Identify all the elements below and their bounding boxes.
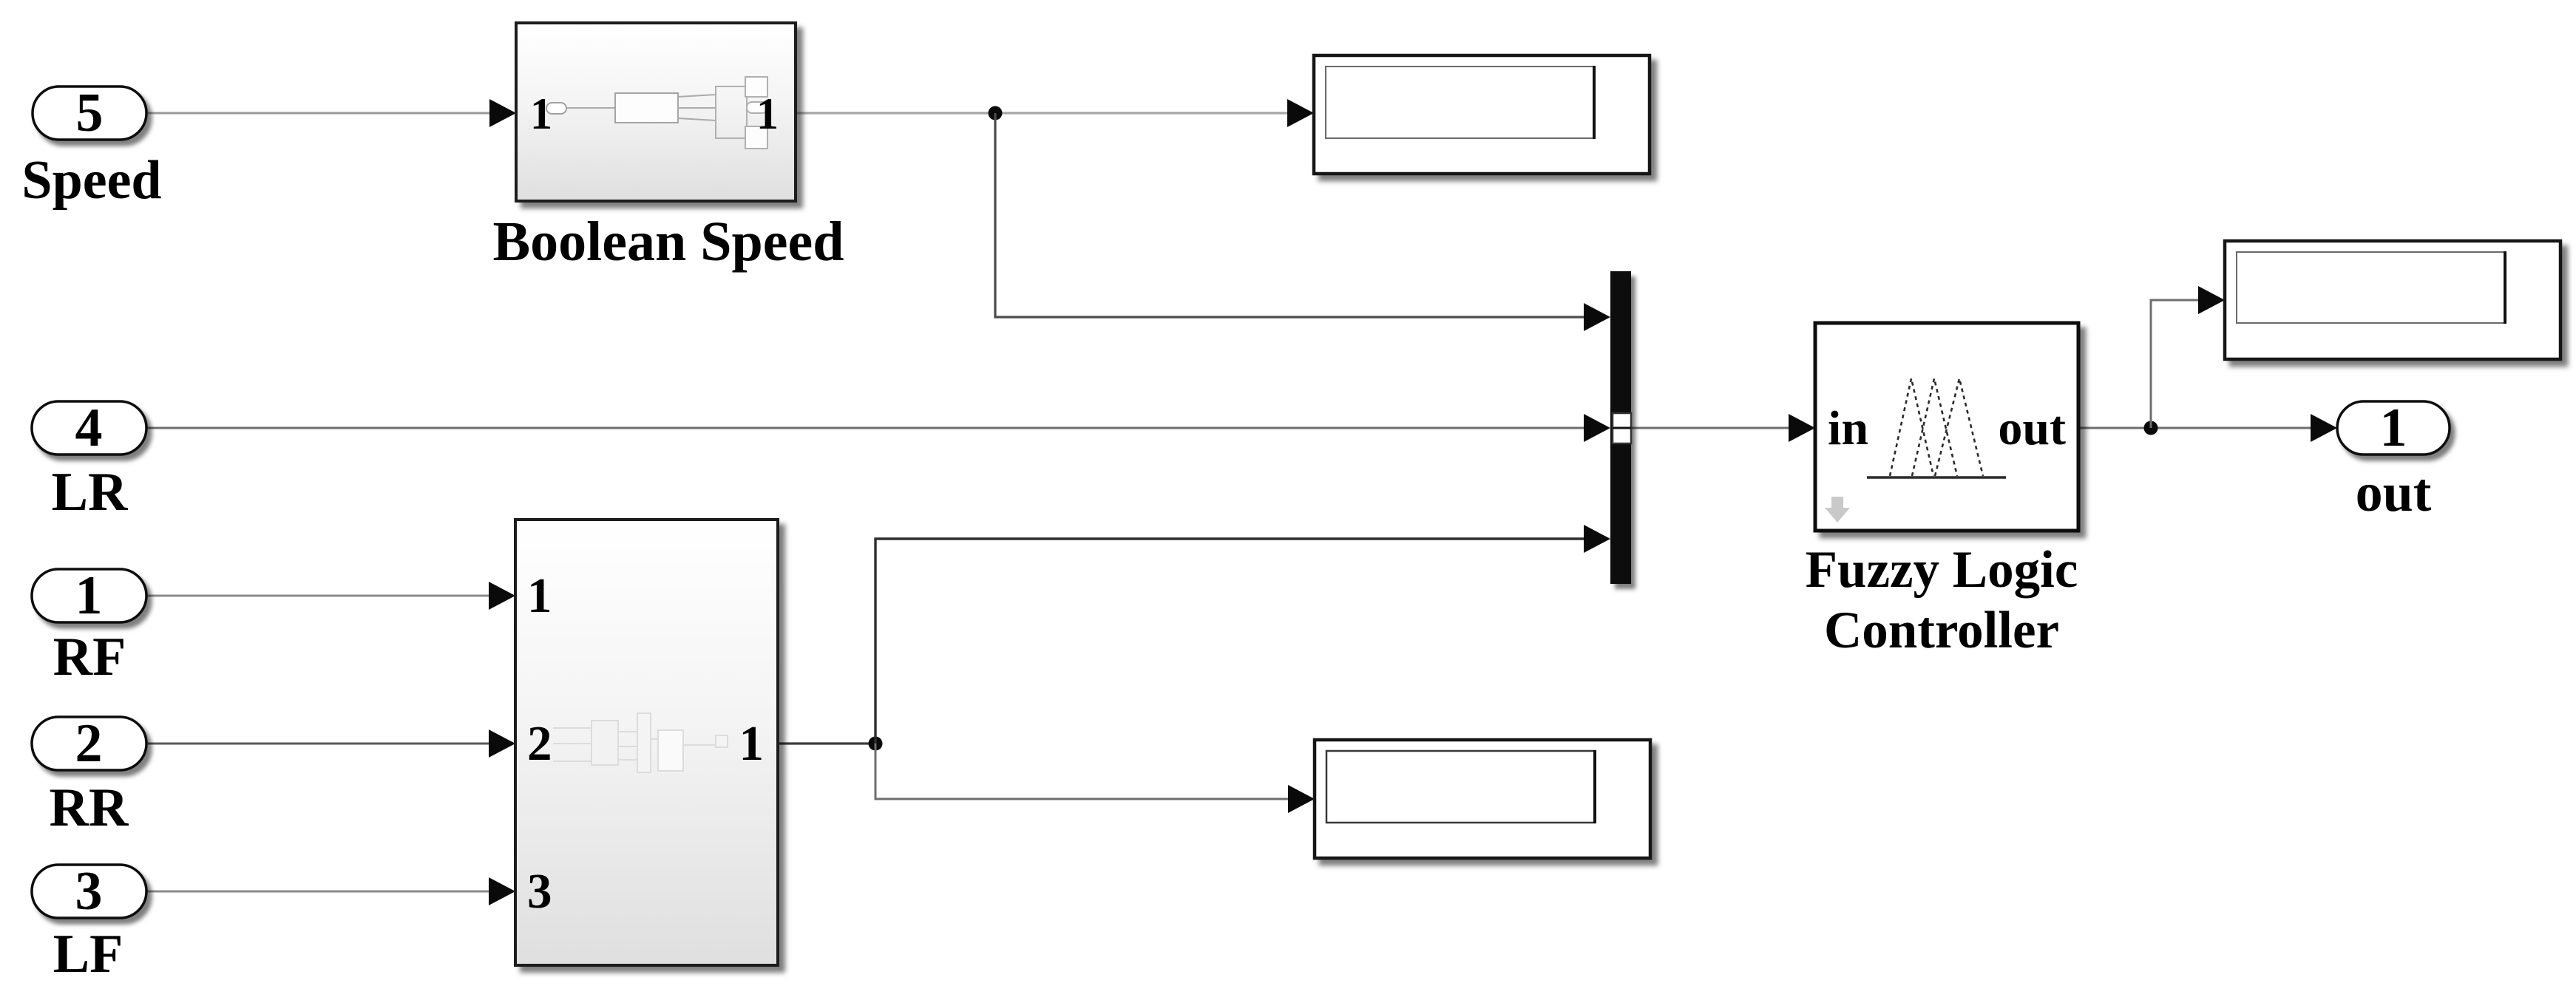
wire RF port 1 to subsystem input 1 [146,595,494,597]
arrow into display 3 [2198,286,2225,314]
subsystem fuzzy preprocessing (3-input) [515,520,778,965]
svg-text:2: 2 [527,716,552,771]
wire LR port 4 to mux input 2 [146,427,1588,429]
svg-text:3: 3 [527,864,552,919]
label LR [52,462,129,523]
svg-text:1: 1 [2380,398,2407,458]
wire node A down and right to mux input 1 [995,113,1588,317]
svg-text:RR: RR [50,778,129,838]
arrow into out port [2311,414,2337,442]
inport 5 Speed [33,83,146,143]
svg-text:LR: LR [52,462,129,523]
display 1 (top middle) [1314,55,1650,174]
inport 1 RF [32,565,146,626]
svg-text:Fuzzy Logic: Fuzzy Logic [1806,541,2078,599]
label out [2356,463,2432,523]
svg-text:5: 5 [76,83,104,143]
svg-text:LF: LF [53,924,123,984]
fuzzy logic controller block U1 [1815,323,2078,531]
wire subsystem output to node B [778,742,875,744]
arrow into display 1 [1287,99,1314,127]
label RF [53,627,126,687]
label Speed [21,150,161,211]
svg-text:3: 3 [75,861,103,922]
arrow into subsystem input 1 [489,582,515,610]
arrow into mux input 3 [1584,525,1610,553]
svg-text:1: 1 [756,89,779,138]
arrow into display 2 [1288,785,1315,813]
svg-text:in: in [1828,401,1868,455]
wire node B down and right to display 2 [875,744,1292,799]
wire Speed to Boolean Speed [146,112,495,115]
svg-text:1: 1 [739,716,765,771]
svg-text:Boolean Speed: Boolean Speed [492,211,844,273]
junction dot node B [869,737,883,751]
svg-text:2: 2 [75,713,103,774]
wire Boolean Speed output to display 1 [796,112,1292,114]
subsystem Boolean Speed [516,23,796,201]
display 3 (top right) [2225,241,2560,359]
inport 2 RR [32,713,146,774]
svg-text:4: 4 [75,398,103,458]
svg-text:out: out [1998,401,2066,455]
wire mux output to Fuzzy Logic Controller [1631,427,1794,429]
junction dot node A [989,106,1003,120]
wire node C up and right to display 3 [2151,300,2203,428]
svg-text:out: out [2356,463,2432,523]
junction dot node C [2144,421,2158,435]
wire LF port 3 to subsystem input 3 [146,891,494,893]
outport 1 out [2337,398,2450,458]
label LF [53,924,123,984]
wire RR port 2 to subsystem input 2 [146,743,494,745]
label Boolean Speed [492,211,844,273]
arrow into mux input 1 [1584,303,1610,331]
label Fuzzy Logic Controller [1806,541,2078,659]
arrow into Boolean Speed port 1 [489,99,516,127]
arrow into subsystem input 3 [489,877,515,905]
label RR [50,778,129,838]
svg-text:1: 1 [75,565,103,626]
svg-text:Speed: Speed [21,150,161,211]
wire node B up and right to mux input 3 [875,539,1588,744]
inport 3 LF [32,861,146,922]
svg-text:1: 1 [527,568,552,623]
wire Fuzzy Logic Controller output to out port [2078,427,2316,429]
svg-text:RF: RF [53,627,126,687]
arrow into Fuzzy Logic Controller [1789,414,1815,442]
mux [1610,271,1631,584]
arrow into mux input 2 [1584,414,1610,442]
inport 4 LR [32,398,146,458]
svg-text:Controller: Controller [1824,602,2059,659]
arrow into subsystem input 2 [489,729,515,758]
display 2 (bottom) [1315,740,1650,858]
